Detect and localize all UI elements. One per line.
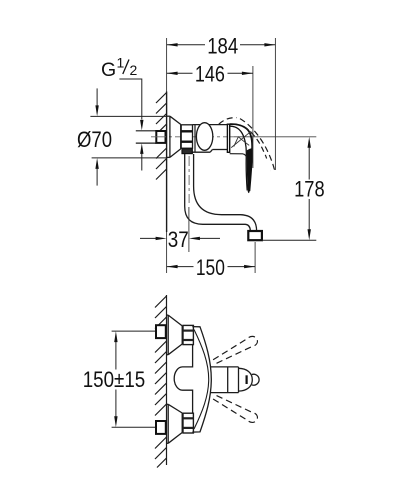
wall face line (166, 295, 168, 465)
body collar (194, 125, 196, 153)
centerline (faucet axis) (151, 136, 234, 138)
rotated handle dashed root arc (219, 118, 237, 125)
handle dome (239, 368, 253, 391)
svg-text:184: 184 (207, 34, 238, 59)
wall face line / left extension line (166, 38, 168, 92)
top union: supply/extension line (112, 330, 156, 332)
dimension 37 (140, 207, 220, 252)
aerator (248, 231, 262, 240)
handle hook inner line (230, 154, 247, 160)
bottom union: hex nut (183, 413, 193, 433)
dimension 184 (167, 34, 276, 171)
body end cap (227, 124, 229, 152)
dimension 150 +/- 15 (83, 331, 146, 427)
top union: square wall fitting (156, 325, 166, 338)
handle slot (246, 375, 248, 384)
svg-text:150: 150 (196, 255, 225, 280)
svg-text:1: 1 (117, 55, 125, 71)
rotated handle dashed outer edge (240, 119, 274, 171)
top union: escutcheon cone (167, 315, 183, 355)
rotated handle dashed inner edge (244, 127, 267, 159)
wall hatching (156, 93, 167, 180)
lower swivel dashed capsule (213, 395, 257, 423)
body lens outer contour (192, 327, 211, 433)
rotated handle root (thin solid) (234, 137, 249, 147)
svg-text:178: 178 (294, 177, 325, 202)
square wall fitting (156, 131, 165, 143)
spout centerline (188, 156, 190, 203)
escutcheon cone (167, 116, 181, 157)
top union: escutcheon flange (167, 315, 169, 355)
spout tube (185, 154, 251, 231)
svg-text:37: 37 (168, 227, 189, 252)
body bridge with notch (174, 345, 192, 413)
handle lever (solid) (230, 124, 252, 191)
top union: hex nut (183, 325, 193, 344)
svg-text:150±15: 150±15 (83, 367, 146, 392)
spout collar under nut (182, 149, 192, 154)
dimension 150 (167, 242, 256, 280)
dimension 178 (262, 137, 325, 241)
G 1/2 label (101, 55, 144, 171)
svg-text:146: 146 (195, 62, 225, 87)
cartridge dome ellipse (196, 123, 212, 151)
cartridge stub (211, 367, 239, 393)
upper swivel dashed capsule (213, 336, 257, 364)
hex nut (181, 125, 192, 148)
svg-text:G: G (101, 59, 116, 81)
body lens inner contour (194, 330, 209, 430)
supply nipple G1/2 (136, 130, 156, 132)
svg-text:Ø70: Ø70 (77, 127, 112, 152)
bottom union: escutcheon cone (167, 404, 183, 443)
wall hatching (155, 296, 167, 468)
body outline (193, 125, 228, 153)
dimension diameter 70 (77, 88, 167, 185)
bottom union: square wall fitting (156, 421, 166, 434)
bottom union: escutcheon flange (167, 404, 169, 443)
dimension 146 (167, 62, 253, 169)
svg-text:2: 2 (130, 62, 138, 78)
bottom union: supply/extension line (112, 426, 156, 428)
handle knob tip (252, 374, 259, 385)
